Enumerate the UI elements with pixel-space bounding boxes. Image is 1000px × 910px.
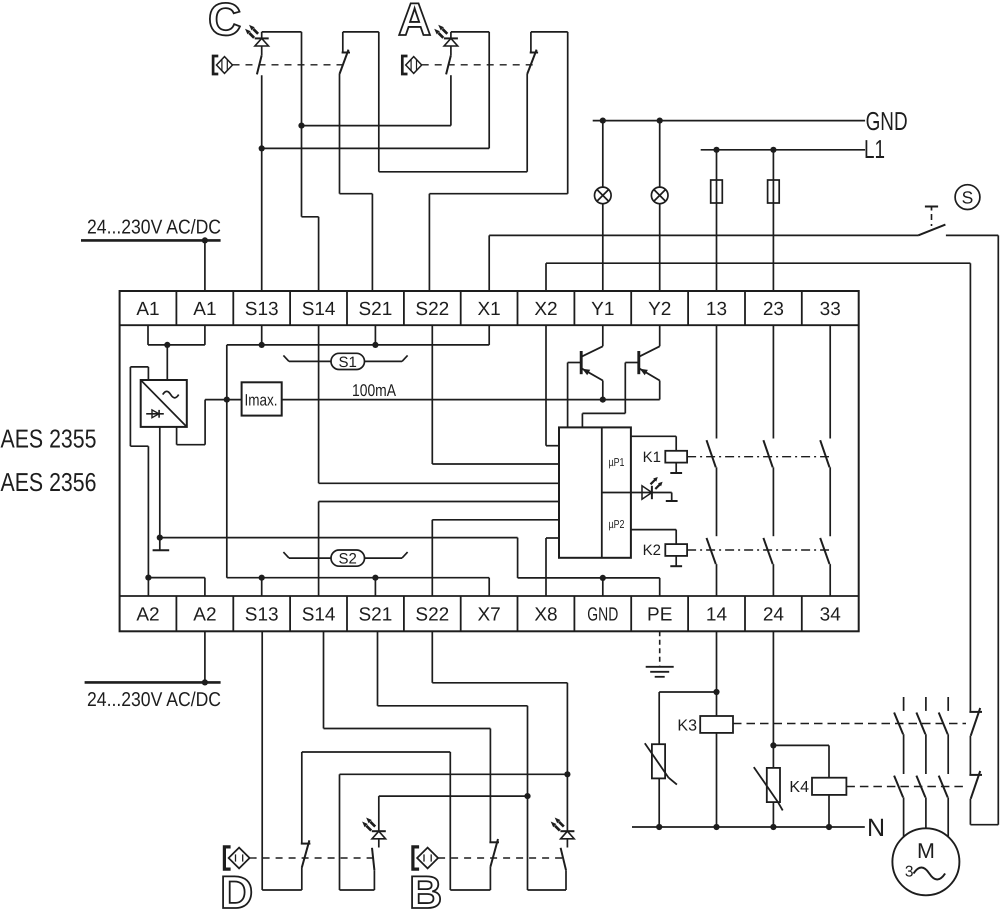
wire D1 to B contact: [302, 752, 491, 890]
svg-text:S2: S2: [339, 551, 357, 568]
contactor coil K4: [789, 778, 846, 796]
contact K1/K2 13-14: [707, 325, 717, 596]
LED of sensor A: [434, 25, 458, 46]
wire S13 bottom stub: [261, 578, 263, 596]
wire supply left bracket to A2 pair: [130, 367, 148, 578]
svg-text:C: C: [208, 0, 241, 45]
label L1: [864, 134, 885, 164]
wire S14 top to uP: [319, 325, 559, 483]
svg-text:S13: S13: [245, 299, 279, 320]
node 14 branch: [713, 689, 719, 695]
internal status LED: [602, 477, 672, 499]
wire S13 bottom to D contact: [262, 631, 302, 890]
node C1 to S13: [259, 145, 265, 151]
wire supply output to 0V rail: [159, 427, 161, 538]
label 24...230V AC/DC (bottom supply): [87, 689, 221, 711]
net GND rail: [593, 120, 865, 122]
module AES outline box: [120, 291, 859, 631]
net X1 bottom distribution: [227, 578, 489, 596]
net 100mA line: [282, 399, 660, 401]
node X1-S13 bottom: [259, 575, 265, 581]
wire A LED top to X1 node: [262, 32, 490, 148]
contact D2 (contact with LED of sensor D): [372, 839, 379, 870]
wire 14 branch to varistor: [659, 692, 716, 744]
wire A2 pair join: [148, 578, 205, 596]
net 0V rail to GND PE: [160, 538, 660, 578]
wire feedback inner vertical: [969, 263, 971, 712]
link K2 coil to contacts: [687, 549, 829, 551]
wire 13 from L1: [716, 150, 718, 291]
link K4 coil to contacts: [846, 786, 966, 788]
contact B1 (ticked contact of sensor B): [489, 729, 499, 867]
node A2 join: [145, 575, 151, 581]
label 100mA: [352, 381, 397, 400]
wire right outer vertical: [997, 235, 999, 824]
node on C-S14 wire: [298, 123, 304, 129]
wire S22 bottom to uP: [432, 520, 559, 596]
contact A1 (reed contact of sensor A): [446, 46, 451, 126]
wire S21 bottom chain: [378, 631, 567, 890]
node top supply junction: [202, 237, 208, 243]
svg-text:14: 14: [706, 605, 728, 626]
transistor T2 output Y2: [582, 325, 659, 427]
node D2 join on S22 wire: [564, 771, 570, 777]
contact K3/K4 phase 1: [894, 697, 904, 837]
svg-text:Imax.: Imax.: [245, 392, 278, 410]
wire S14 bottom to B1: [324, 631, 491, 728]
pushbutton S actuator: [925, 207, 938, 227]
node GND-Y2: [657, 118, 663, 124]
svg-text:S21: S21: [358, 605, 392, 626]
relay coil K1: [643, 449, 687, 466]
terminal cell separators: [176, 291, 801, 631]
ground K2 coil: [670, 556, 682, 566]
svg-text:K2: K2: [643, 542, 661, 559]
wire C LED top down to S14: [302, 32, 319, 291]
pushbutton S contact: [918, 225, 945, 236]
node N-K4: [826, 824, 832, 830]
wire D2 to S22 node: [340, 774, 568, 890]
earth symbol at PE: [646, 631, 674, 677]
wire uP1 to K1: [631, 436, 676, 451]
feedback contact K4 aux: [969, 771, 982, 825]
svg-text:S: S: [962, 188, 974, 208]
wire Y1 lamp to terminal: [602, 204, 604, 291]
contact K1/K2 23-24: [763, 325, 773, 596]
sensor B label: [409, 866, 442, 910]
wire A1 tap to power supply: [166, 345, 168, 380]
LED of sensor D: [362, 818, 386, 839]
label N: [867, 814, 885, 842]
svg-text:PE: PE: [647, 605, 672, 626]
node X1-S21 top: [372, 342, 378, 348]
svg-text:S1: S1: [339, 354, 357, 371]
wire uP2 to K2: [631, 530, 676, 545]
wire S22 top to uP: [432, 325, 559, 464]
svg-text:Y1: Y1: [591, 299, 614, 320]
wire S21 bottom stub: [374, 578, 376, 596]
wire supply plus output: [177, 400, 242, 445]
node N-R1: [656, 824, 662, 830]
contact D1 (ticked contact of sensor D): [301, 752, 311, 868]
svg-text:S14: S14: [302, 605, 336, 626]
svg-text:K3: K3: [677, 718, 697, 735]
svg-text:A: A: [398, 0, 431, 45]
contact K3/K4 phase 3: [939, 697, 949, 837]
wire varistor R1 to N: [658, 778, 660, 827]
net L1 rail: [701, 149, 865, 151]
sensor D label: [220, 866, 253, 910]
wire K3 to N: [716, 733, 718, 827]
svg-text:S14: S14: [302, 299, 336, 320]
svg-text:A2: A2: [193, 605, 216, 626]
wire C2 top to A2 contact: [343, 32, 527, 172]
wire X1 to button: [489, 235, 918, 291]
feedback contact K3 aux: [969, 708, 982, 775]
svg-text:M: M: [917, 839, 935, 863]
node N-R2: [770, 824, 776, 830]
svg-text:24...230V AC/DC: 24...230V AC/DC: [87, 217, 221, 239]
svg-text:GND: GND: [866, 106, 908, 136]
terminal labels bottom row: [136, 605, 841, 626]
sensor A actuator symbol: [402, 56, 421, 74]
svg-text:3: 3: [905, 864, 914, 881]
wire A1 pair join: [148, 325, 205, 345]
indicator lamp H1: [595, 187, 612, 204]
microprocessor unit uP1 uP2: [559, 427, 631, 557]
indicator lamp H2: [651, 187, 668, 204]
node N-K3: [713, 824, 719, 830]
node supply to X1 net: [224, 397, 230, 403]
wire Y2 lamp top: [659, 121, 661, 188]
terminal labels top row: [136, 299, 840, 320]
LED of sensor B: [551, 818, 575, 839]
node 24 branch: [770, 742, 776, 748]
svg-text:24...230V AC/DC: 24...230V AC/DC: [87, 689, 221, 711]
svg-text:Y2: Y2: [648, 299, 671, 320]
node GND-Y1: [600, 118, 606, 124]
contact B2 (contact with LED of sensor B): [561, 839, 568, 870]
dashed actuation line sensor D: [250, 857, 378, 859]
svg-text:L1: L1: [864, 134, 885, 164]
dashed actuation line sensor A: [422, 64, 534, 66]
svg-text:24: 24: [763, 605, 785, 626]
wire button to right side: [946, 234, 998, 236]
node A1 supply tap: [164, 342, 170, 348]
node 0V-GND terminal: [600, 575, 606, 581]
transistor T1 output Y1: [568, 325, 603, 427]
wire K4 to N: [828, 795, 830, 827]
wire 0V to GND terminal: [602, 578, 604, 596]
svg-text:23: 23: [763, 299, 784, 320]
wire bottom supply bus: [85, 681, 221, 684]
varistor R2: [754, 767, 783, 810]
internal ground of supply: [153, 538, 170, 551]
varistor R1: [645, 743, 677, 784]
wire 24 down: [772, 631, 774, 768]
coupler S1: [283, 353, 407, 371]
net N rail: [632, 826, 865, 828]
sensor D actuator symbol: [224, 847, 249, 869]
svg-text:X2: X2: [534, 299, 557, 320]
label S (reset button): [955, 185, 980, 210]
power supply unit: [141, 380, 187, 427]
net X1 top distribution: [227, 325, 489, 345]
link K3 coil to contacts: [733, 723, 966, 725]
svg-text:GND: GND: [587, 605, 618, 626]
fuse F1: [711, 180, 723, 203]
wire X2 to uP: [546, 325, 559, 446]
svg-text:S22: S22: [415, 299, 449, 320]
svg-text:33: 33: [820, 299, 841, 320]
svg-text:34: 34: [820, 605, 842, 626]
relay coil K2: [643, 542, 687, 559]
wire Y1 lamp top: [602, 121, 604, 188]
wire varistor R2 to N: [772, 802, 774, 827]
wire X8 to uP: [546, 538, 559, 596]
node bottom supply junction: [202, 679, 208, 685]
svg-text:X8: X8: [534, 605, 557, 626]
contact C2 (ticked contact of sensor C): [340, 32, 373, 291]
wire S14 bottom to uP: [319, 502, 559, 597]
ground K1 coil: [670, 463, 682, 473]
dashed actuation line sensor C: [233, 64, 347, 66]
label GND: [866, 106, 908, 136]
dashed actuation line sensor B: [438, 857, 564, 859]
wire top supply bus: [81, 239, 221, 242]
node X1-S21 bottom: [372, 575, 378, 581]
wire 23 from L1: [772, 150, 774, 291]
wire 14 to K3: [716, 631, 718, 716]
svg-text:N: N: [867, 814, 885, 842]
wire feedback loop bottom: [970, 824, 998, 826]
svg-text:X7: X7: [477, 605, 500, 626]
contact A2 (ticked contact of sensor A): [527, 32, 538, 172]
contact K3/K4 phase 2: [916, 697, 926, 828]
wire 24 branch to K4: [773, 745, 829, 777]
svg-text:K1: K1: [643, 449, 661, 466]
contact C1 (reed contact of sensor C): [257, 46, 262, 291]
wire X2 to feedback contacts: [546, 263, 970, 291]
node supply 0V: [157, 535, 163, 541]
wire D LED to S21 node: [379, 796, 528, 831]
LED of sensor C: [245, 25, 269, 46]
svg-text:X1: X1: [477, 299, 500, 320]
wire 0V to PE terminal: [659, 578, 661, 596]
svg-text:µP2: µP2: [609, 519, 625, 531]
svg-text:AES 2356: AES 2356: [1, 467, 97, 497]
motor M1 3-phase: [892, 828, 959, 895]
fuse F2: [768, 180, 780, 203]
node X1-S13 top: [259, 342, 265, 348]
wire A2 to bottom bus: [204, 631, 206, 682]
coupler S2: [283, 550, 407, 568]
wire top supply to A1: [204, 240, 206, 291]
sensor B actuator symbol: [413, 847, 438, 869]
svg-text:A1: A1: [136, 299, 159, 320]
label 24...230V AC/DC (top supply): [87, 217, 221, 239]
wire S13 top stub: [261, 325, 263, 345]
sensor C label: [208, 0, 241, 45]
ground status LED: [666, 493, 678, 502]
svg-text:S13: S13: [245, 605, 279, 626]
svg-text:100mA: 100mA: [352, 381, 397, 400]
svg-text:D: D: [220, 866, 253, 910]
wire X1 net vertical: [226, 345, 228, 578]
svg-text:µP1: µP1: [609, 457, 625, 469]
svg-text:S22: S22: [415, 605, 449, 626]
sensor A label: [398, 0, 431, 45]
wire A2 top to S22: [429, 32, 567, 291]
node D LED join: [524, 793, 530, 799]
svg-text:S21: S21: [358, 299, 392, 320]
link K1 coil to contacts: [687, 456, 829, 458]
node L1-13: [713, 147, 719, 153]
svg-text:B: B: [409, 866, 442, 910]
svg-text:A2: A2: [136, 605, 159, 626]
contact K1/K2 33-34: [820, 325, 830, 596]
svg-text:13: 13: [706, 299, 727, 320]
label AES 2355: [1, 424, 97, 454]
node T1 emitter on 100mA: [600, 397, 606, 403]
svg-text:K4: K4: [789, 779, 809, 796]
current limiter Imax: [242, 382, 282, 415]
wire S22 bottom to B LED: [432, 631, 567, 831]
wire Y2 lamp to terminal: [659, 204, 661, 291]
node L1-23: [770, 147, 776, 153]
svg-text:A1: A1: [193, 299, 216, 320]
svg-text:AES 2355: AES 2355: [1, 424, 97, 454]
wire S21 top stub: [374, 325, 376, 345]
wire A1 to S14 node: [302, 125, 451, 127]
label AES 2356: [1, 467, 97, 497]
sensor C actuator symbol: [213, 56, 232, 74]
contactor coil K3: [677, 716, 733, 735]
wire C LED top: [262, 32, 302, 39]
